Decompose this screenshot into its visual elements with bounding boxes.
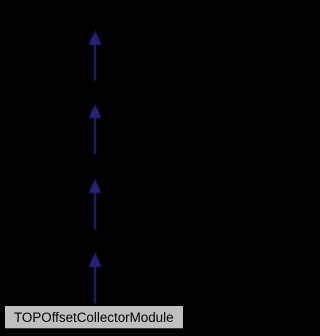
svg-text:TOPOffsetCollectorModule: TOPOffsetCollectorModule [14,310,174,325]
